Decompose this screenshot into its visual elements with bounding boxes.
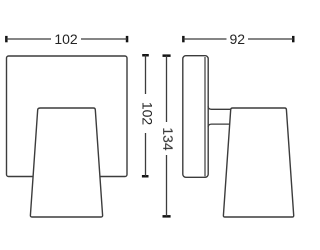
dimension 102 vertical: top tick bbox=[142, 54, 149, 57]
front view: square wall plate bbox=[7, 56, 128, 177]
dimension 134 vertical: bottom tick bbox=[163, 215, 171, 218]
dimension 134 vertical: bottom line segment bbox=[166, 155, 168, 216]
dimension 92 horizontal: right line segment bbox=[248, 38, 293, 40]
svg-text:102: 102 bbox=[140, 102, 156, 126]
dimension 92 horizontal: left line segment bbox=[183, 38, 226, 40]
side view: bracket arm top line with fillet bbox=[208, 106, 231, 109]
svg-text:102: 102 bbox=[54, 31, 78, 47]
dimension 134 vertical: top line segment bbox=[166, 56, 168, 122]
dimension 92 horizontal: right tick bbox=[292, 36, 295, 42]
svg-text:134: 134 bbox=[160, 127, 176, 151]
dimension 102 horizontal: left line segment bbox=[6, 38, 51, 40]
dimension 92 horizontal: left tick bbox=[182, 36, 185, 42]
dimension 134 vertical: top tick bbox=[163, 54, 171, 57]
side view: plate front edge line bbox=[204, 57, 206, 176]
side view: bracket arm bottom line with fillet bbox=[208, 124, 230, 127]
front view: cone body bbox=[30, 108, 102, 217]
svg-text:92: 92 bbox=[230, 31, 246, 47]
side view: wall plate outline bbox=[183, 56, 208, 178]
dimension 102 vertical: top line segment bbox=[145, 55, 147, 94]
side view: cone body bbox=[223, 108, 293, 217]
dimension 102 horizontal: left tick bbox=[5, 36, 8, 42]
dimension 102 vertical: bottom line segment bbox=[145, 133, 147, 176]
dimension 102 horizontal: right line segment bbox=[81, 38, 127, 40]
dimension 102 horizontal: right tick bbox=[126, 36, 129, 42]
dimension 102 vertical: bottom tick bbox=[142, 175, 149, 178]
